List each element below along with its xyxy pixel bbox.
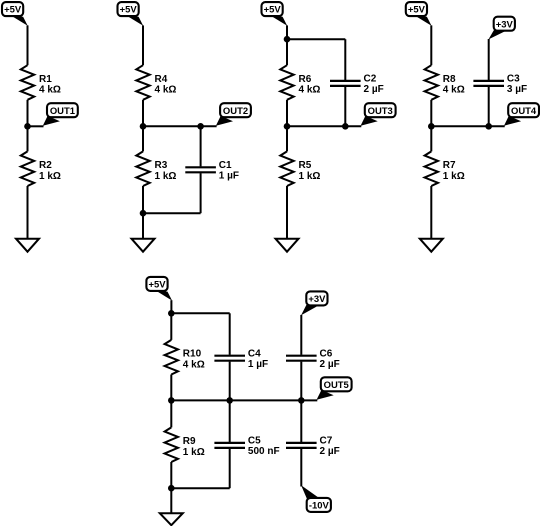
capacitor C4 (1 &#181;F) [214, 355, 245, 357]
wire [27, 100, 29, 152]
svg-text:R4: R4 [155, 74, 168, 85]
wire [287, 125, 345, 127]
svg-text:1 kΩ: 1 kΩ [443, 171, 465, 182]
svg-text:R10: R10 [183, 349, 202, 360]
svg-text:4 kΩ: 4 kΩ [155, 85, 177, 96]
node circuit2 bottom junction dot [140, 210, 147, 217]
svg-text:C3: C3 [507, 74, 520, 85]
resistor R4 (4 k&#937;) [136, 65, 149, 100]
svg-text:+5V: +5V [148, 280, 166, 291]
capacitor C3 (3 &#181;F) [473, 80, 504, 82]
resistor R7 (1 k&#937;) [425, 151, 438, 186]
svg-text:R7: R7 [443, 160, 456, 171]
capacitor C7 (2 &#181;F) [286, 442, 317, 444]
resistor R2 (1 k&#937;) [21, 151, 34, 186]
wire [170, 375, 172, 428]
output flag OUT3 [365, 103, 396, 117]
svg-text:C1: C1 [219, 160, 232, 171]
wire [229, 400, 231, 442]
wire [170, 462, 172, 514]
wire [142, 25, 144, 65]
capacitor C6 (2 &#181;F) [286, 355, 317, 357]
svg-text:OUT5: OUT5 [324, 380, 349, 391]
svg-text:+5V: +5V [120, 5, 138, 16]
svg-text:1 kΩ: 1 kΩ [183, 447, 205, 458]
wire [430, 100, 432, 152]
wire [170, 300, 172, 313]
wire [300, 362, 302, 401]
wire [287, 38, 345, 40]
svg-text:C2: C2 [364, 74, 377, 85]
node OUT3 left junction dot [284, 123, 291, 130]
resistor R1 (4 k&#937;) [21, 65, 34, 100]
svg-text:1 kΩ: 1 kΩ [39, 171, 61, 182]
svg-text:1 µF: 1 µF [248, 359, 268, 370]
power flag +5V (circuit 1) [2, 2, 23, 16]
svg-text:C7: C7 [320, 436, 333, 447]
svg-text:C5: C5 [248, 436, 261, 447]
svg-text:OUT4: OUT4 [511, 106, 537, 117]
node circuit3 top junction dot [284, 36, 291, 43]
wire stub to OUT2 [201, 125, 217, 127]
svg-text:OUT1: OUT1 [50, 106, 75, 117]
wire [143, 212, 201, 214]
resistor R5 (1 k&#937;) [280, 151, 293, 186]
wire [170, 313, 172, 340]
node circuit5 top junction dot [168, 310, 175, 317]
power flag +3V (circuit 4) [494, 17, 515, 31]
svg-text:OUT2: OUT2 [223, 106, 248, 117]
wire [344, 39, 346, 80]
svg-text:R6: R6 [299, 74, 312, 85]
capacitor C2 (2 &#181;F) [330, 80, 361, 82]
svg-text:2 µF: 2 µF [320, 446, 340, 457]
wire [171, 312, 229, 314]
svg-text:4 kΩ: 4 kΩ [443, 85, 465, 96]
svg-text:OUT3: OUT3 [368, 106, 393, 117]
wire [286, 100, 288, 152]
svg-text:C6: C6 [320, 348, 333, 359]
ground [132, 239, 155, 252]
node OUT3 right junction dot [342, 123, 349, 130]
svg-text:+5V: +5V [408, 5, 426, 16]
wire [229, 313, 231, 355]
svg-text:R3: R3 [155, 160, 168, 171]
svg-text:1 µF: 1 µF [219, 171, 239, 182]
wire stub to OUT5 [301, 399, 317, 401]
svg-text:+3V: +3V [308, 294, 326, 305]
node OUT5 right junction dot [298, 397, 305, 404]
output flag OUT4 [508, 103, 539, 117]
wire stub to OUT4 [489, 125, 505, 127]
node OUT4 left junction dot [428, 123, 435, 130]
svg-text:R5: R5 [299, 160, 312, 171]
wire [300, 315, 302, 355]
output flag OUT2 [220, 103, 251, 117]
wire [300, 449, 302, 487]
ground [16, 239, 39, 252]
power flag +5V (circuit 2) [118, 2, 139, 16]
svg-text:-10V: -10V [309, 501, 330, 512]
svg-text:4 kΩ: 4 kΩ [299, 85, 321, 96]
node OUT4 right junction dot [485, 123, 492, 130]
resistor R10 (4 k&#937;) [165, 340, 178, 375]
node OUT5 left junction dot [168, 397, 175, 404]
svg-text:R2: R2 [39, 160, 52, 171]
wire [229, 449, 231, 488]
wire [229, 362, 231, 401]
resistor R9 (1 k&#937;) [165, 427, 178, 462]
output flag OUT1 [47, 103, 78, 117]
resistor R3 (1 k&#937;) [136, 151, 149, 186]
node OUT2 right junction dot [197, 123, 204, 130]
wire [200, 173, 202, 213]
svg-text:C4: C4 [248, 348, 261, 359]
svg-text:3 µF: 3 µF [507, 84, 527, 95]
svg-text:R8: R8 [443, 74, 456, 85]
wire [142, 186, 144, 240]
wire [171, 399, 301, 401]
wire [286, 186, 288, 240]
power flag +5V (circuit 4) [406, 2, 427, 16]
capacitor C1 (1 &#181;F) [185, 166, 216, 168]
output flag OUT5 [321, 377, 352, 391]
wire [488, 39, 490, 80]
power flag +5V (circuit 3) [262, 2, 283, 16]
svg-text:R1: R1 [39, 74, 52, 85]
svg-text:+5V: +5V [264, 5, 282, 16]
svg-text:2 µF: 2 µF [320, 359, 340, 370]
svg-text:1 kΩ: 1 kΩ [299, 171, 321, 182]
wire [300, 400, 302, 442]
resistor R8 (4 k&#937;) [425, 65, 438, 100]
wire [143, 125, 201, 127]
node OUT1 junction dot [24, 123, 31, 130]
node OUT5 mid junction dot [226, 397, 233, 404]
ground [276, 239, 299, 252]
svg-text:1 kΩ: 1 kΩ [155, 171, 177, 182]
svg-text:R9: R9 [183, 436, 196, 447]
wire [430, 186, 432, 240]
wire [431, 125, 488, 127]
wire [488, 87, 490, 127]
svg-text:500 nF: 500 nF [248, 446, 280, 457]
resistor R6 (4 k&#937;) [280, 65, 293, 100]
wire stub to OUT3 [345, 125, 361, 127]
wire [200, 126, 202, 166]
svg-text:4 kΩ: 4 kΩ [39, 85, 61, 96]
ground [160, 513, 183, 525]
svg-text:4 kΩ: 4 kΩ [183, 359, 205, 370]
wire [344, 87, 346, 127]
node OUT2 left junction dot [140, 123, 147, 130]
node circuit5 bottom junction dot [168, 485, 175, 492]
svg-text:+5V: +5V [4, 5, 22, 16]
wire [27, 25, 29, 65]
power flag +3V (circuit 5) [306, 291, 327, 305]
power flag +5V (circuit 5) [146, 277, 167, 291]
capacitor C5 (500 nF) [214, 442, 245, 444]
svg-text:+3V: +3V [496, 19, 514, 30]
wire [142, 100, 144, 152]
ground [420, 239, 443, 252]
wire stub to OUT1 [28, 125, 44, 127]
svg-text:2 µF: 2 µF [364, 84, 384, 95]
wire [27, 186, 29, 240]
wire [171, 487, 229, 489]
wire [286, 25, 288, 65]
power flag -10V [307, 498, 331, 512]
wire [430, 25, 432, 65]
